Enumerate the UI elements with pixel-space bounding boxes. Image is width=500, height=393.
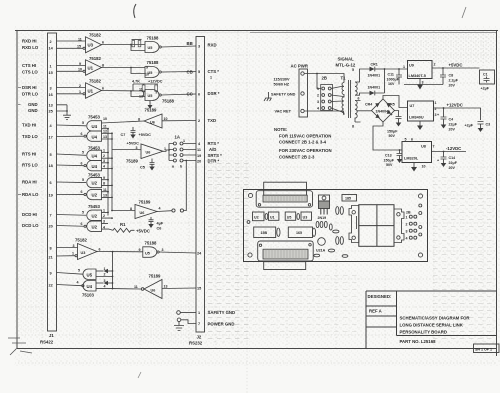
svg-text:+12VDC: +12VDC [447,103,463,108]
svg-text:1: 1 [406,215,408,219]
svg-text:2: 2 [104,273,106,277]
svg-text:10: 10 [78,68,82,72]
svg-text:8: 8 [50,246,52,250]
svg-text:U2: U2 [92,193,98,198]
svg-text:5: 5 [198,70,200,74]
connector J2 (RS232) [189,37,205,346]
svg-text:1: 1 [183,139,185,143]
svg-text:3: 3 [73,244,75,248]
diode CR2 1N4004 [368,68,386,95]
svg-text:2: 2 [317,94,319,98]
svg-text:13: 13 [49,103,53,107]
svg-text:CR4: CR4 [365,103,372,107]
receiver U6 75189 (TXD from J2) [138,108,196,129]
svg-text:2: 2 [434,63,436,67]
capacitor C5 [140,159,155,171]
svg-text:18: 18 [49,164,53,168]
svg-text:3: 3 [422,81,424,85]
svg-text:U7: U7 [410,104,415,108]
svg-text:2: 2 [50,40,52,44]
svg-text:1N4001: 1N4001 [368,74,381,78]
svg-text:11: 11 [197,148,201,152]
svg-text:CTS LO: CTS LO [22,70,38,75]
svg-text:21: 21 [49,255,53,259]
svg-text:U5: U5 [287,216,292,220]
svg-text:U4: U4 [92,154,98,159]
svg-text:SIGNAL: SIGNAL [338,57,355,62]
svg-text:6: 6 [81,161,83,165]
svg-text:DTR *: DTR * [208,158,220,163]
bus vertical line A [107,128,109,216]
svg-text:U3: U3 [303,216,308,220]
svg-text:2: 2 [103,154,105,158]
svg-text:2.2μF: 2.2μF [449,79,459,83]
svg-text:8: 8 [102,64,104,68]
svg-text:75182: 75182 [89,33,102,38]
svg-text:13: 13 [164,284,168,288]
svg-text:POWER GND: POWER GND [208,322,235,327]
bridge rectifier CR4 CR5 1N4004 [365,99,395,122]
svg-text:C3: C3 [486,123,491,127]
svg-text:19: 19 [49,193,53,197]
svg-text:+12VDC: +12VDC [148,79,163,83]
board edge tab [264,262,306,270]
gate U4 (TXD LO) [57,129,113,141]
title block text [368,294,471,344]
svg-text:25: 25 [49,109,53,113]
power gnd circle [177,318,196,326]
margin tick dashes [18,88,21,195]
svg-text:5: 5 [82,178,84,182]
svg-text:U6: U6 [140,211,145,215]
svg-text:11: 11 [139,87,143,91]
svg-text:RS422: RS422 [40,340,54,345]
svg-text:10: 10 [164,117,168,121]
AC labels [271,78,296,114]
svg-text:1: 1 [210,76,212,80]
svg-text:5: 5 [50,153,52,157]
regulator U7 LM340U [408,101,437,130]
receiver U6 75189 (to 1A jumper) [112,142,169,164]
svg-text:75453: 75453 [88,173,101,178]
svg-text:6: 6 [50,181,52,185]
svg-text:+5VDC: +5VDC [449,63,463,68]
svg-text:U2: U2 [92,213,98,218]
svg-text:C8: C8 [449,74,454,78]
svg-text:SAFETY GND: SAFETY GND [208,310,236,315]
jumper pair circles [172,209,184,212]
svg-text:75189: 75189 [126,159,139,164]
svg-text:4.7K: 4.7K [132,79,140,83]
svg-text:+: + [437,113,439,117]
svg-text:LM340U: LM340U [409,116,424,120]
IC outlines row 1 [253,212,312,221]
label box on board [342,195,357,202]
svg-text:75189: 75189 [149,274,162,279]
svg-text:FOR 115VAC OPERATION: FOR 115VAC OPERATION [279,134,331,139]
svg-text:10: 10 [422,165,426,169]
svg-text:+: + [391,113,393,117]
+12VDC output [434,103,481,121]
wires 1A to J2 [183,144,196,161]
svg-text:7: 7 [198,322,200,326]
svg-text:TXD HI: TXD HI [22,123,36,128]
connector top (board) [256,182,312,207]
regulator U8 LM320L [402,138,435,172]
svg-text:SAFETY GND: SAFETY GND [271,93,296,97]
svg-text:RTS *: RTS * [208,141,220,146]
svg-text:C14: C14 [449,156,456,160]
svg-text:10: 10 [103,117,107,121]
J1 pin labels [22,39,39,229]
gate U2 75453 (RDA HI) [57,173,113,188]
svg-text:CTS HI: CTS HI [22,63,36,68]
svg-text:U5: U5 [148,94,153,98]
svg-text:75453: 75453 [88,115,101,120]
mounting holes [247,193,423,257]
svg-text:1N4004: 1N4004 [376,109,389,113]
svg-text:75182: 75182 [89,56,102,61]
svg-text:U3: U3 [81,251,86,255]
svg-text:RTS HI: RTS HI [22,152,36,157]
svg-text:13: 13 [103,135,107,139]
svg-text:4: 4 [77,280,79,284]
svg-text:15: 15 [77,45,81,49]
svg-text:6: 6 [358,97,360,101]
receiver U6 75189 (from J2 pin 15) [114,274,197,299]
wire U3 out to U5 RDA driver [97,251,143,253]
svg-text:NOTE:: NOTE: [274,127,288,132]
svg-text:C5: C5 [140,166,145,170]
svg-text:6: 6 [102,87,104,91]
svg-text:1: 1 [198,311,200,315]
svg-text:+: + [437,159,439,163]
svg-text:TXD LO: TXD LO [22,134,38,139]
capacitor C14 22uF 20V [437,152,458,171]
capacitor C11 1000uF 16V [387,69,403,86]
svg-text:9: 9 [139,248,141,252]
svg-text:75188: 75188 [147,60,160,65]
svg-text:1N4001: 1N4001 [368,86,381,90]
svg-text:75188: 75188 [162,99,175,104]
svg-text:C6: C6 [157,227,162,231]
wire U1 out to U5 (CTS) [101,65,149,76]
svg-text:5: 5 [78,268,80,272]
receiver U1 75182 (DSR) [57,79,105,99]
svg-text:11: 11 [78,37,82,41]
bridge negative rail down to U8 [373,122,402,150]
svg-text:CB: CB [187,69,193,74]
J1 pin numbers [49,40,54,287]
capacitor C13 150uF 50V [384,149,403,167]
svg-text:3: 3 [103,159,105,163]
transistor TO-220 on board [318,195,330,220]
svg-text:75103: 75103 [82,293,95,298]
svg-text:6: 6 [99,247,101,251]
svg-text:VAC RET: VAC RET [275,110,292,114]
svg-text:6: 6 [81,222,83,226]
svg-text:PART NO. L25168: PART NO. L25168 [400,339,437,344]
svg-text:1: 1 [104,267,106,271]
svg-text:185: 185 [345,197,351,201]
pads near board edge [419,204,422,236]
svg-text:1000μF: 1000μF [387,78,400,82]
svg-text:11: 11 [103,125,107,129]
svg-text:RS232: RS232 [189,341,203,346]
svg-text:16: 16 [49,93,53,97]
gate U4 75103 [57,279,114,298]
capacitor C3 [465,122,491,133]
signal label [336,57,356,68]
wire AC hot to 2B and T1 [304,73,344,89]
svg-text:4: 4 [406,236,408,240]
+5VDC output [432,63,480,69]
gate U2 (RDA LO) [57,188,113,200]
sheet number box [474,344,500,353]
wires 2B to T1 primary [331,86,343,113]
svg-text:5: 5 [82,121,84,125]
gate U4 (RTS LO) [57,159,113,171]
svg-text:7: 7 [433,145,435,149]
svg-text:3: 3 [198,45,200,49]
gate U2 (DCD LO) [57,220,110,232]
svg-text:8: 8 [138,118,140,122]
svg-text:6: 6 [198,93,200,97]
svg-text:AC PWR: AC PWR [291,64,309,69]
svg-text:C13: C13 [385,154,392,158]
svg-text:15: 15 [49,71,53,75]
svg-text:U5: U5 [145,251,150,255]
svg-text:C7: C7 [121,133,126,137]
svg-text:RXD LO: RXD LO [22,45,39,50]
svg-text:CC: CC [187,91,193,96]
svg-text:4: 4 [104,285,106,289]
PCB assembly board outline [244,190,428,262]
svg-text:LM320L: LM320L [404,157,419,161]
svg-text:RXD: RXD [208,43,217,48]
svg-text:CR1: CR1 [371,63,378,67]
jumper block 1A [172,135,185,169]
svg-text:1: 1 [103,209,105,213]
svg-text:6: 6 [411,138,413,142]
svg-text:U4: U4 [87,284,93,289]
svg-text:DCD HI: DCD HI [22,212,37,217]
svg-text:8: 8 [103,181,105,185]
svg-text:SCHEMATIC/ASSY DIAGRAM FOR: SCHEMATIC/ASSY DIAGRAM FOR [400,316,471,321]
svg-text:75188: 75188 [145,241,158,246]
svg-text:5: 5 [405,138,407,142]
connector J1 (RS422) [40,33,57,345]
svg-text:75189: 75189 [139,200,152,205]
svg-text:9: 9 [79,62,81,66]
stray mark bottom [138,372,141,378]
svg-text:50/60 HZ: 50/60 HZ [274,83,290,87]
gate U4 75453 (RTS HI) [57,145,113,160]
svg-text:2: 2 [103,214,105,218]
bracket feeding 1A column a [168,144,173,161]
svg-text:BB: BB [187,41,193,46]
driver U5 75188 (CTS) [145,60,196,77]
capacitor C7 decoupling [121,127,152,139]
svg-text:RTS LO: RTS LO [22,163,38,168]
note text [274,127,332,160]
svg-text:75182: 75182 [89,79,102,84]
capacitor C6 [148,217,164,231]
svg-text:11: 11 [134,285,138,289]
svg-text:U4: U4 [92,164,98,169]
capacitor C2 on +12 raw [387,111,402,139]
svg-text:75453: 75453 [88,204,101,209]
svg-text:MTL-G-12: MTL-G-12 [336,63,356,68]
J2 pin numbers [197,45,202,327]
svg-text:165: 165 [296,231,302,235]
svg-text:DESIGNED:: DESIGNED: [368,294,392,299]
diode CR1 1N4004 [368,63,385,78]
svg-text:J1: J1 [49,333,54,338]
-12VDC output [432,146,467,152]
svg-text:20V: 20V [449,166,456,170]
svg-text:RXD HI: RXD HI [22,39,37,44]
svg-text:1: 1 [403,65,405,69]
resistor R1 to +5VDC [109,222,150,233]
svg-text:3: 3 [162,248,164,252]
svg-text:3: 3 [104,279,106,283]
svg-text:PERSONALITY BOARD: PERSONALITY BOARD [400,330,447,335]
svg-text:J2: J2 [197,335,202,340]
driver U5 75188 (RDA) [139,241,197,258]
svg-text:75189: 75189 [145,108,158,113]
ground J1 [63,115,71,119]
svg-text:U5: U5 [148,71,153,75]
svg-text:6: 6 [81,190,83,194]
receiver U3 75182 (RXD) [57,33,105,53]
svg-text:U6: U6 [146,151,151,155]
svg-text:2B: 2B [406,211,411,215]
svg-text:1: 1 [79,90,81,94]
svg-text:8: 8 [352,125,354,129]
svg-text:75188: 75188 [147,36,160,41]
svg-text:22μF: 22μF [449,161,458,165]
svg-text:1: 1 [317,87,319,91]
svg-text:U5: U5 [87,273,93,278]
svg-text:9: 9 [146,65,148,69]
gate U4 75453 (TXD HI) [57,115,145,131]
svg-text:75182: 75182 [75,238,88,243]
svg-text:13: 13 [139,94,143,98]
stray pen mark top left [134,4,136,18]
bus vertical line C [112,251,114,290]
svg-text:1A: 1A [175,135,181,140]
wire 1A b4 down to jumper pair [184,160,188,211]
svg-text:17: 17 [49,135,53,139]
svg-text:5: 5 [82,211,84,215]
svg-text:4: 4 [317,107,319,111]
svg-text:+2μF: +2μF [465,124,474,128]
transformer T1 [341,68,360,129]
svg-text:2: 2 [79,84,81,88]
svg-text:8: 8 [130,207,132,211]
svg-text:DSR HI: DSR HI [22,85,37,90]
svg-text:3: 3 [50,86,52,90]
svg-text:C1: C1 [483,73,488,77]
svg-text:+5VDC: +5VDC [139,133,152,137]
svg-text:+5VDC: +5VDC [136,228,150,233]
resistor 4.7K pullup +12VDC [132,79,163,96]
svg-text:20: 20 [197,159,201,163]
ground at J2 [174,326,184,331]
svg-text:U2: U2 [92,224,98,229]
receiver U1 75182 (CTS) [57,56,105,75]
svg-text:4: 4 [103,165,105,169]
svg-text:R1: R1 [120,222,126,227]
receiver U3 75182 (RDA) [57,238,101,260]
svg-text:RDA LO: RDA LO [22,192,39,197]
svg-text:U1: U1 [88,65,94,70]
svg-text:9: 9 [103,176,105,180]
title block [366,291,497,349]
svg-text:RDA HI: RDA HI [22,180,37,185]
svg-text:DSR *: DSR * [208,91,220,96]
svg-text:U8: U8 [421,145,426,149]
svg-text:CONNECT 2B 2-3: CONNECT 2B 2-3 [279,155,315,160]
gate U2 75453 (DCD HI) [57,204,113,220]
svg-text:3: 3 [406,229,408,233]
svg-text:4: 4 [103,225,105,229]
svg-text:C4: C4 [449,118,454,122]
svg-text:1: 1 [435,101,437,105]
svg-text:15: 15 [197,287,201,291]
safety gnd circle [177,311,196,315]
svg-text:U1: U1 [270,216,275,220]
svg-text:15B: 15B [261,231,268,235]
wire U1 out to U5 (DSR) [101,87,145,98]
driver U5 75188 (RXD) [145,36,196,53]
svg-text:2: 2 [406,222,408,226]
svg-text:11: 11 [103,188,107,192]
svg-text:TXD: TXD [208,118,217,123]
svg-text:2: 2 [198,119,200,123]
svg-text:150μF: 150μF [387,130,398,134]
svg-text:+2μF: +2μF [481,87,490,91]
svg-text:7: 7 [50,213,52,217]
svg-text:CTS *: CTS * [208,69,220,74]
svg-text:SRTS *: SRTS * [208,153,223,158]
svg-text:9: 9 [50,271,52,275]
svg-text:50V: 50V [386,163,393,167]
svg-text:4: 4 [159,206,161,210]
svg-text:2N19: 2N19 [318,216,327,220]
svg-text:U9: U9 [409,64,414,68]
wire CR out to U9 [385,68,408,70]
svg-text:U6: U6 [151,288,156,292]
svg-text:1: 1 [103,149,105,153]
driver U5 75188 (DSR) [145,90,196,104]
J2 signal labels [208,43,236,327]
svg-text:U6: U6 [150,120,155,124]
svg-text:12: 12 [103,129,107,133]
IC outlines row 2 [254,227,316,238]
svg-text:U1: U1 [88,88,94,93]
svg-text:1: 1 [50,64,52,68]
svg-text:CONNECT 2B 1-2 & 3-4: CONNECT 2B 1-2 & 3-4 [279,140,327,145]
svg-text:LONG DISTANCE SERIAL LINK: LONG DISTANCE SERIAL LINK [400,323,464,328]
stray pen mark top right [462,7,466,18]
capacitor C4 22uF 20V [437,108,458,132]
small parts on board [314,207,348,258]
svg-text:U2: U2 [92,181,98,186]
jumper block 2B [317,76,333,111]
svg-text:GND: GND [28,102,38,107]
